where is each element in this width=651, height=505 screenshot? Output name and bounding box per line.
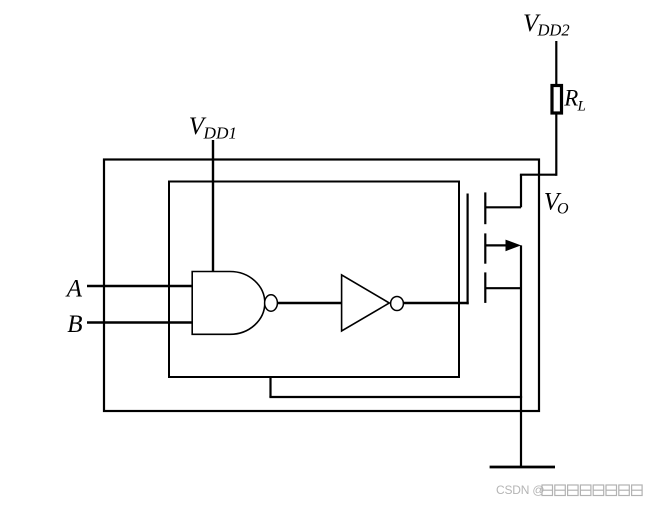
wire inverter to gate: [403, 302, 469, 304]
svg-text:DD2: DD2: [537, 20, 570, 39]
label VDD2: [523, 10, 570, 39]
transistor Q1 channel dashes: [484, 192, 486, 224]
transistor Q1 body tap with arrow: [485, 244, 508, 246]
wire VDD1 to NAND top: [212, 140, 214, 272]
wire VDD2 to RL: [555, 41, 557, 84]
ground: [490, 466, 555, 469]
wire step to RL: [520, 174, 556, 176]
wire source/body bus down to ground: [520, 245, 522, 466]
NAND output bubble: [265, 295, 278, 311]
svg-text:CSDN @: CSDN @: [496, 483, 544, 497]
transistor Q1 gate bar: [467, 194, 469, 305]
NAND gate U1: [192, 272, 265, 335]
wire drain up: [520, 175, 522, 208]
svg-text:O: O: [557, 200, 569, 217]
svg-text:B: B: [67, 311, 82, 338]
wire input A: [87, 285, 193, 287]
label RL: [563, 86, 586, 115]
transistor Q1 drain tap: [485, 206, 521, 208]
wire NAND to inverter: [277, 302, 342, 304]
watermark CSDN: [496, 483, 642, 497]
wire input B: [87, 321, 193, 323]
inverter output bubble: [391, 297, 404, 311]
wire inner-box bottom stub: [269, 377, 271, 397]
transistor Q1 source tap: [485, 287, 521, 289]
svg-text:A: A: [65, 276, 83, 303]
label VDD1: [189, 113, 237, 143]
inverter U2: [342, 275, 390, 331]
outer box: [104, 160, 539, 412]
wire bottom horizontal to bus: [269, 396, 522, 398]
inner box: [169, 182, 459, 378]
wire RL down to step: [555, 115, 557, 176]
svg-text:DD1: DD1: [202, 124, 237, 143]
label VO: [544, 189, 569, 218]
svg-text:R: R: [563, 86, 578, 111]
svg-text:L: L: [577, 99, 586, 115]
resistor RL: [552, 86, 562, 114]
